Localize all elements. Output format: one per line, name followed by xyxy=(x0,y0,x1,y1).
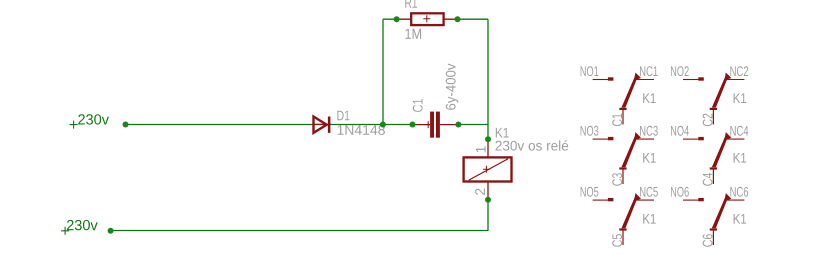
label NC2 xyxy=(730,66,748,76)
relay contact K1 switch 1 xyxy=(593,73,654,125)
label contact 5 part name K1 xyxy=(643,214,656,224)
label NO3 xyxy=(581,126,599,136)
label D1 name xyxy=(337,111,349,121)
node 230v top net label xyxy=(70,114,109,128)
capacitor C1 xyxy=(413,112,459,138)
junction C1 right pin xyxy=(455,122,461,128)
label K1 value 230v os relé xyxy=(496,140,569,150)
label C1 name (rotated) xyxy=(413,99,423,112)
wire K1 pin2 to bottom rail xyxy=(111,200,488,231)
junction R1 left branch xyxy=(380,122,386,128)
relay contact K1 switch 5 xyxy=(593,193,654,245)
wire from R1 left pin down to main rail xyxy=(383,19,397,124)
wire main rail right segment xyxy=(458,124,488,126)
node 230v bottom net label xyxy=(61,220,98,235)
relay contact K1 switch 2 xyxy=(683,73,744,125)
diode D1 xyxy=(314,117,332,133)
label contact common C2 (rotated) xyxy=(703,114,713,127)
label NC5 xyxy=(640,187,658,197)
label contact common C5 (rotated) xyxy=(612,234,622,247)
label NO4 xyxy=(671,126,689,136)
label contact 6 part name K1 xyxy=(734,214,747,224)
junction top-left terminal xyxy=(123,122,129,128)
wire K1 pin1 drop xyxy=(487,125,489,140)
label contact common C4 (rotated) xyxy=(703,173,713,186)
label K1 pin 1 (rotated) xyxy=(476,146,486,152)
relay coil K1 xyxy=(464,141,512,200)
label NO6 xyxy=(671,187,689,197)
label NC6 xyxy=(730,187,748,197)
junction K1 pin1 xyxy=(485,136,491,142)
junction R1 right pin xyxy=(455,16,461,22)
label C1 value 6y-400v (rotated) xyxy=(446,64,459,110)
label contact common C6 (rotated) xyxy=(703,234,713,247)
label K1 name xyxy=(496,128,509,138)
junction C1 left pin xyxy=(410,122,416,128)
label R1 value 1M xyxy=(406,29,422,39)
wire from R1 right pin down to K1 xyxy=(458,19,489,124)
relay contact K1 switch 3 xyxy=(593,132,654,184)
label contact common C1 (rotated) xyxy=(612,114,622,127)
label R1 name xyxy=(405,0,417,8)
junction bottom-left terminal xyxy=(108,228,114,234)
label contact 1 part name K1 xyxy=(643,93,656,103)
junction K1 pin2 xyxy=(485,197,491,203)
label D1 value 1N4148 xyxy=(338,125,385,135)
label NC4 xyxy=(730,126,748,136)
junction R1 left pin xyxy=(394,16,400,22)
label NO1 xyxy=(581,66,599,76)
label NC1 xyxy=(640,66,658,76)
label contact common C3 (rotated) xyxy=(612,173,622,186)
resistor R1 xyxy=(397,13,458,25)
label contact 4 part name K1 xyxy=(734,153,747,163)
label contact 3 part name K1 xyxy=(643,153,656,163)
relay contact K1 switch 6 xyxy=(683,193,744,245)
label NC3 xyxy=(640,126,658,136)
relay contact K1 switch 4 xyxy=(683,132,744,184)
label NO5 xyxy=(581,187,599,197)
wire main rail left segment xyxy=(126,124,413,126)
label contact 2 part name K1 xyxy=(734,93,747,103)
label K1 pin 2 (rotated) xyxy=(475,189,485,195)
label NO2 xyxy=(671,66,689,76)
